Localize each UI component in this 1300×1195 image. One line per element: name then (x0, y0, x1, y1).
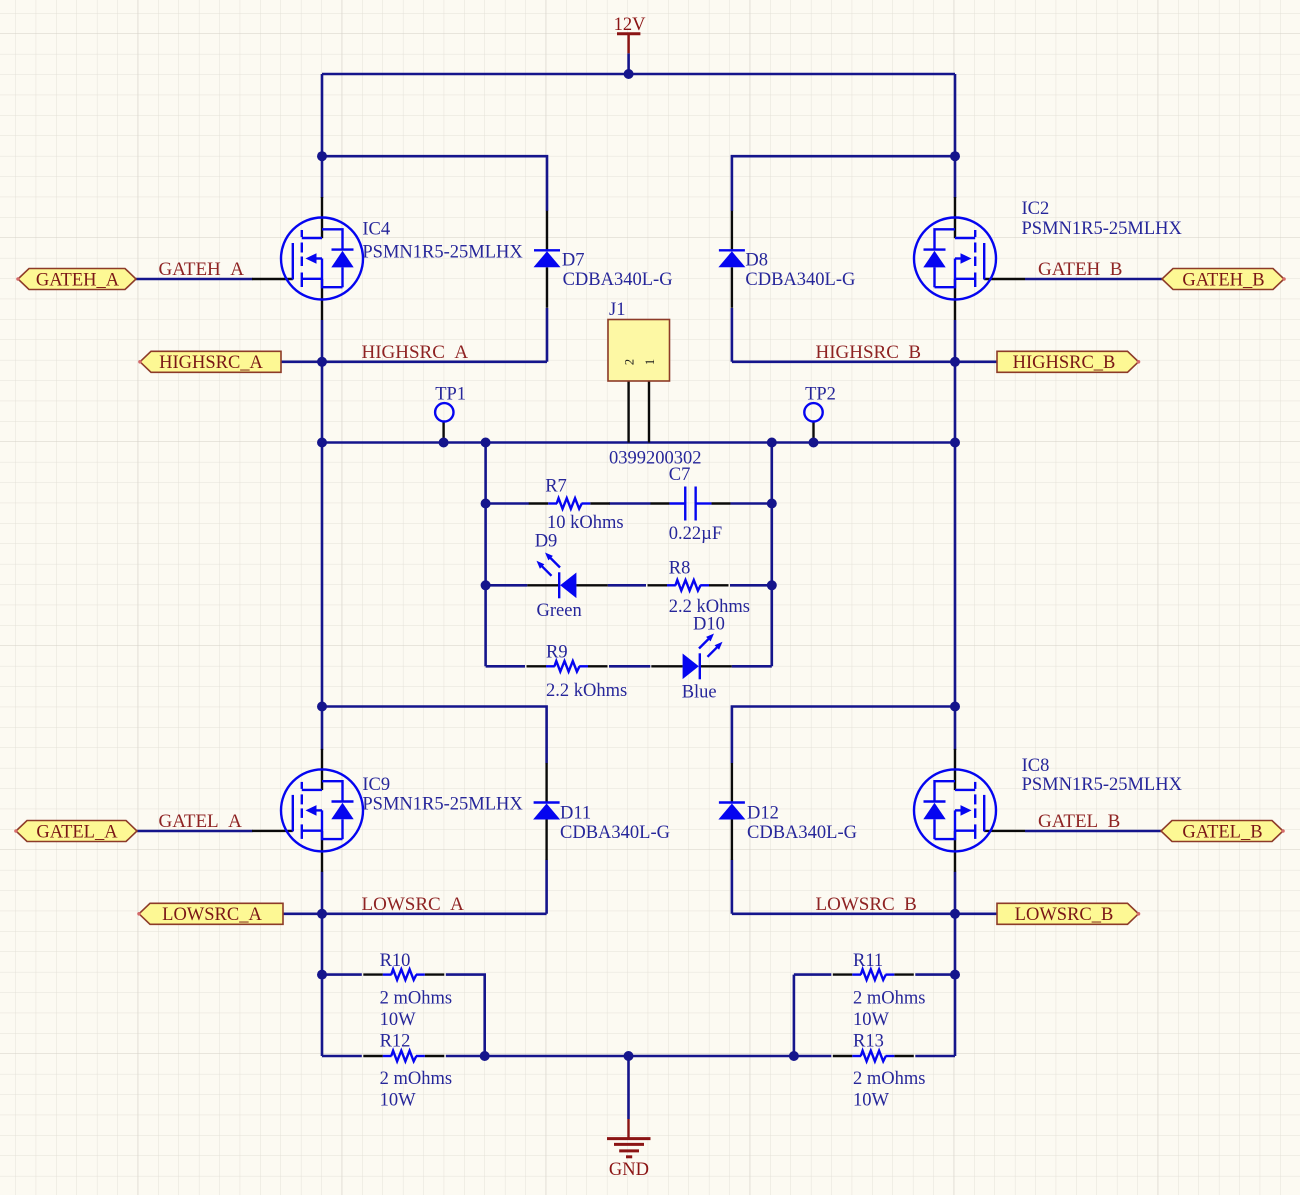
svg-text:R8: R8 (669, 559, 691, 579)
svg-text:2: 2 (623, 359, 637, 365)
svg-text:R9: R9 (546, 643, 568, 663)
svg-text:R11: R11 (853, 951, 883, 971)
svg-text:GATEL_A: GATEL_A (36, 822, 118, 842)
svg-text:10 kOhms: 10 kOhms (547, 513, 624, 533)
svg-text:2.2 kOhms: 2.2 kOhms (546, 681, 627, 701)
svg-text:2 mOhms: 2 mOhms (380, 1069, 452, 1089)
svg-text:D10: D10 (693, 615, 725, 635)
svg-text:HIGHSRC A: HIGHSRC A (362, 342, 469, 363)
svg-text:CDBA340L-G: CDBA340L-G (563, 270, 673, 290)
svg-text:TP2: TP2 (805, 384, 836, 404)
svg-text:10W: 10W (380, 1010, 417, 1030)
svg-text:0399200302: 0399200302 (609, 449, 702, 469)
svg-text:2 mOhms: 2 mOhms (380, 989, 452, 1009)
svg-text:Blue: Blue (682, 683, 717, 703)
svg-text:GATEH B: GATEH B (1038, 259, 1122, 280)
svg-text:HIGHSRC B: HIGHSRC B (816, 342, 922, 363)
svg-text:GND: GND (609, 1160, 649, 1180)
svg-text:IC4: IC4 (362, 220, 390, 240)
svg-text:1: 1 (643, 359, 657, 365)
svg-text:D12: D12 (747, 804, 779, 824)
svg-text:D8: D8 (745, 251, 768, 271)
svg-text:0.22µF: 0.22µF (669, 524, 722, 544)
svg-text:D11: D11 (560, 804, 591, 824)
svg-text:HIGHSRC_A: HIGHSRC_A (159, 353, 263, 373)
svg-text:D9: D9 (535, 532, 558, 552)
svg-text:PSMN1R5-25MLHX: PSMN1R5-25MLHX (1022, 219, 1183, 239)
svg-text:PSMN1R5-25MLHX: PSMN1R5-25MLHX (1022, 775, 1183, 795)
svg-text:PSMN1R5-25MLHX: PSMN1R5-25MLHX (362, 795, 523, 815)
svg-text:10W: 10W (380, 1091, 417, 1111)
svg-text:CDBA340L-G: CDBA340L-G (560, 823, 670, 843)
svg-text:Green: Green (537, 601, 582, 621)
svg-text:10W: 10W (853, 1010, 890, 1030)
svg-text:GATEH_B: GATEH_B (1182, 270, 1264, 290)
svg-text:LOWSRC_B: LOWSRC_B (1015, 905, 1114, 925)
svg-text:CDBA340L-G: CDBA340L-G (745, 270, 855, 290)
svg-text:GATEH A: GATEH A (159, 259, 245, 280)
svg-text:R12: R12 (380, 1032, 411, 1052)
svg-text:IC9: IC9 (362, 775, 390, 795)
svg-text:LOWSRC_A: LOWSRC_A (162, 905, 262, 925)
svg-text:TP1: TP1 (435, 384, 466, 404)
svg-text:2 mOhms: 2 mOhms (853, 1069, 925, 1089)
svg-text:PSMN1R5-25MLHX: PSMN1R5-25MLHX (362, 243, 523, 263)
svg-text:10W: 10W (853, 1091, 890, 1111)
svg-text:LOWSRC B: LOWSRC B (816, 894, 917, 915)
svg-text:GATEL A: GATEL A (159, 811, 243, 832)
svg-text:R7: R7 (545, 477, 567, 497)
svg-text:LOWSRC A: LOWSRC A (362, 894, 465, 915)
svg-text:IC2: IC2 (1022, 199, 1050, 219)
svg-text:2 mOhms: 2 mOhms (853, 989, 925, 1009)
svg-text:R10: R10 (380, 951, 411, 971)
svg-text:D7: D7 (562, 251, 585, 271)
svg-text:IC8: IC8 (1022, 756, 1050, 776)
svg-text:12V: 12V (614, 15, 647, 35)
svg-text:HIGHSRC_B: HIGHSRC_B (1013, 353, 1116, 373)
svg-text:R13: R13 (853, 1032, 884, 1052)
svg-text:GATEL B: GATEL B (1038, 811, 1120, 832)
svg-text:GATEL_B: GATEL_B (1182, 822, 1262, 842)
svg-text:GATEH_A: GATEH_A (36, 270, 120, 290)
svg-text:J1: J1 (609, 300, 625, 320)
svg-text:CDBA340L-G: CDBA340L-G (747, 823, 857, 843)
